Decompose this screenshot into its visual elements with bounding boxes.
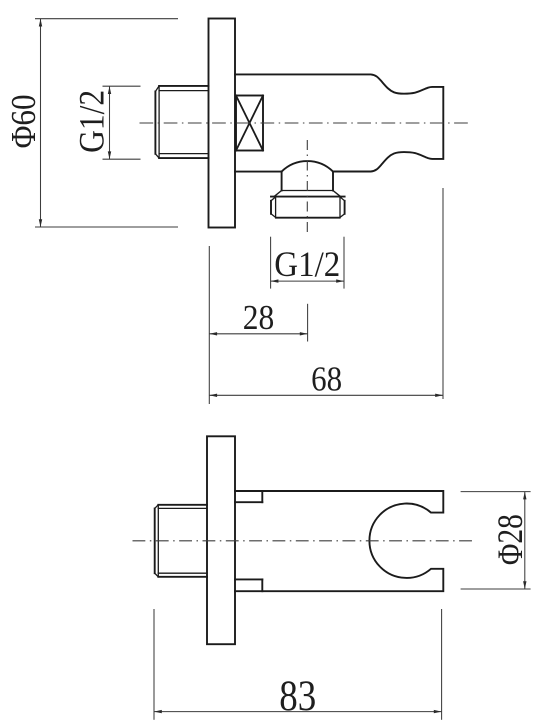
svg-text:Φ28: Φ28	[490, 514, 530, 565]
svg-text:68: 68	[311, 361, 342, 399]
svg-text:G1/2: G1/2	[274, 244, 340, 284]
svg-text:83: 83	[279, 672, 316, 720]
svg-text:G1/2: G1/2	[71, 90, 111, 153]
svg-text:Φ60: Φ60	[5, 94, 43, 148]
svg-text:28: 28	[243, 298, 275, 337]
